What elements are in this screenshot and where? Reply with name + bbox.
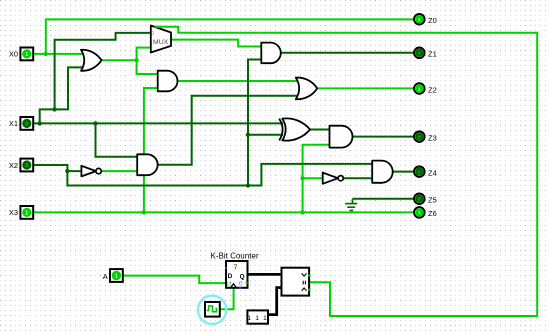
svg-text:0: 0 [151, 31, 154, 37]
svg-text:X3: X3 [9, 208, 18, 217]
svg-text:0: 0 [25, 163, 28, 169]
svg-text:X0: X0 [9, 50, 18, 59]
svg-text:0: 0 [418, 169, 421, 174]
svg-text:D: D [228, 273, 233, 280]
svg-text:Z2: Z2 [428, 85, 437, 94]
svg-text:MUX: MUX [153, 39, 169, 46]
svg-text:Z6: Z6 [428, 209, 437, 218]
svg-text:X2: X2 [9, 161, 18, 170]
svg-text:0: 0 [418, 134, 421, 139]
svg-text:Q: Q [240, 273, 245, 280]
svg-text:7: 7 [234, 263, 238, 272]
svg-text:1: 1 [418, 210, 421, 215]
svg-text:X1: X1 [9, 119, 18, 128]
svg-text:Z0: Z0 [428, 16, 437, 25]
svg-text:Z1: Z1 [428, 50, 437, 59]
svg-text:1: 1 [418, 17, 421, 22]
svg-text:1: 1 [25, 52, 28, 58]
svg-text:0: 0 [418, 197, 421, 202]
svg-text:A: A [103, 272, 108, 281]
svg-text:1: 1 [25, 210, 28, 216]
svg-text:0: 0 [25, 121, 28, 127]
svg-text:K-Bit Counter: K-Bit Counter [211, 251, 259, 260]
svg-text:Z4: Z4 [428, 168, 437, 177]
svg-text:1: 1 [418, 86, 421, 91]
svg-text:1: 1 [115, 274, 118, 280]
svg-text:Z5: Z5 [428, 196, 437, 205]
svg-text:0: 0 [418, 51, 421, 56]
svg-text:1 1 1: 1 1 1 [247, 315, 268, 322]
svg-text:Z3: Z3 [428, 133, 437, 142]
svg-text:0: 0 [239, 281, 243, 288]
